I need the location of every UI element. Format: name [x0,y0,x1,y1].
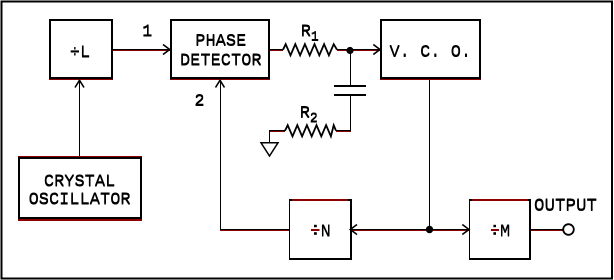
svg-text:DETECTOR: DETECTOR [180,52,262,71]
svg-text:R: R [300,104,310,123]
svg-text:V. C. O.: V. C. O. [389,43,471,62]
svg-text:CRYSTAL: CRYSTAL [44,172,115,191]
svg-text:OSCILLATOR: OSCILLATOR [29,191,131,210]
svg-text:M: M [500,222,510,241]
svg-text:OUTPUT: OUTPUT [534,196,597,216]
svg-text:R: R [301,23,311,42]
svg-text:2: 2 [194,92,204,111]
svg-text:2: 2 [310,112,318,127]
svg-text:N: N [321,222,331,241]
svg-text:1: 1 [142,23,152,42]
svg-text:÷L: ÷L [70,43,90,62]
svg-text:PHASE: PHASE [195,32,246,51]
svg-text:1: 1 [311,30,319,45]
